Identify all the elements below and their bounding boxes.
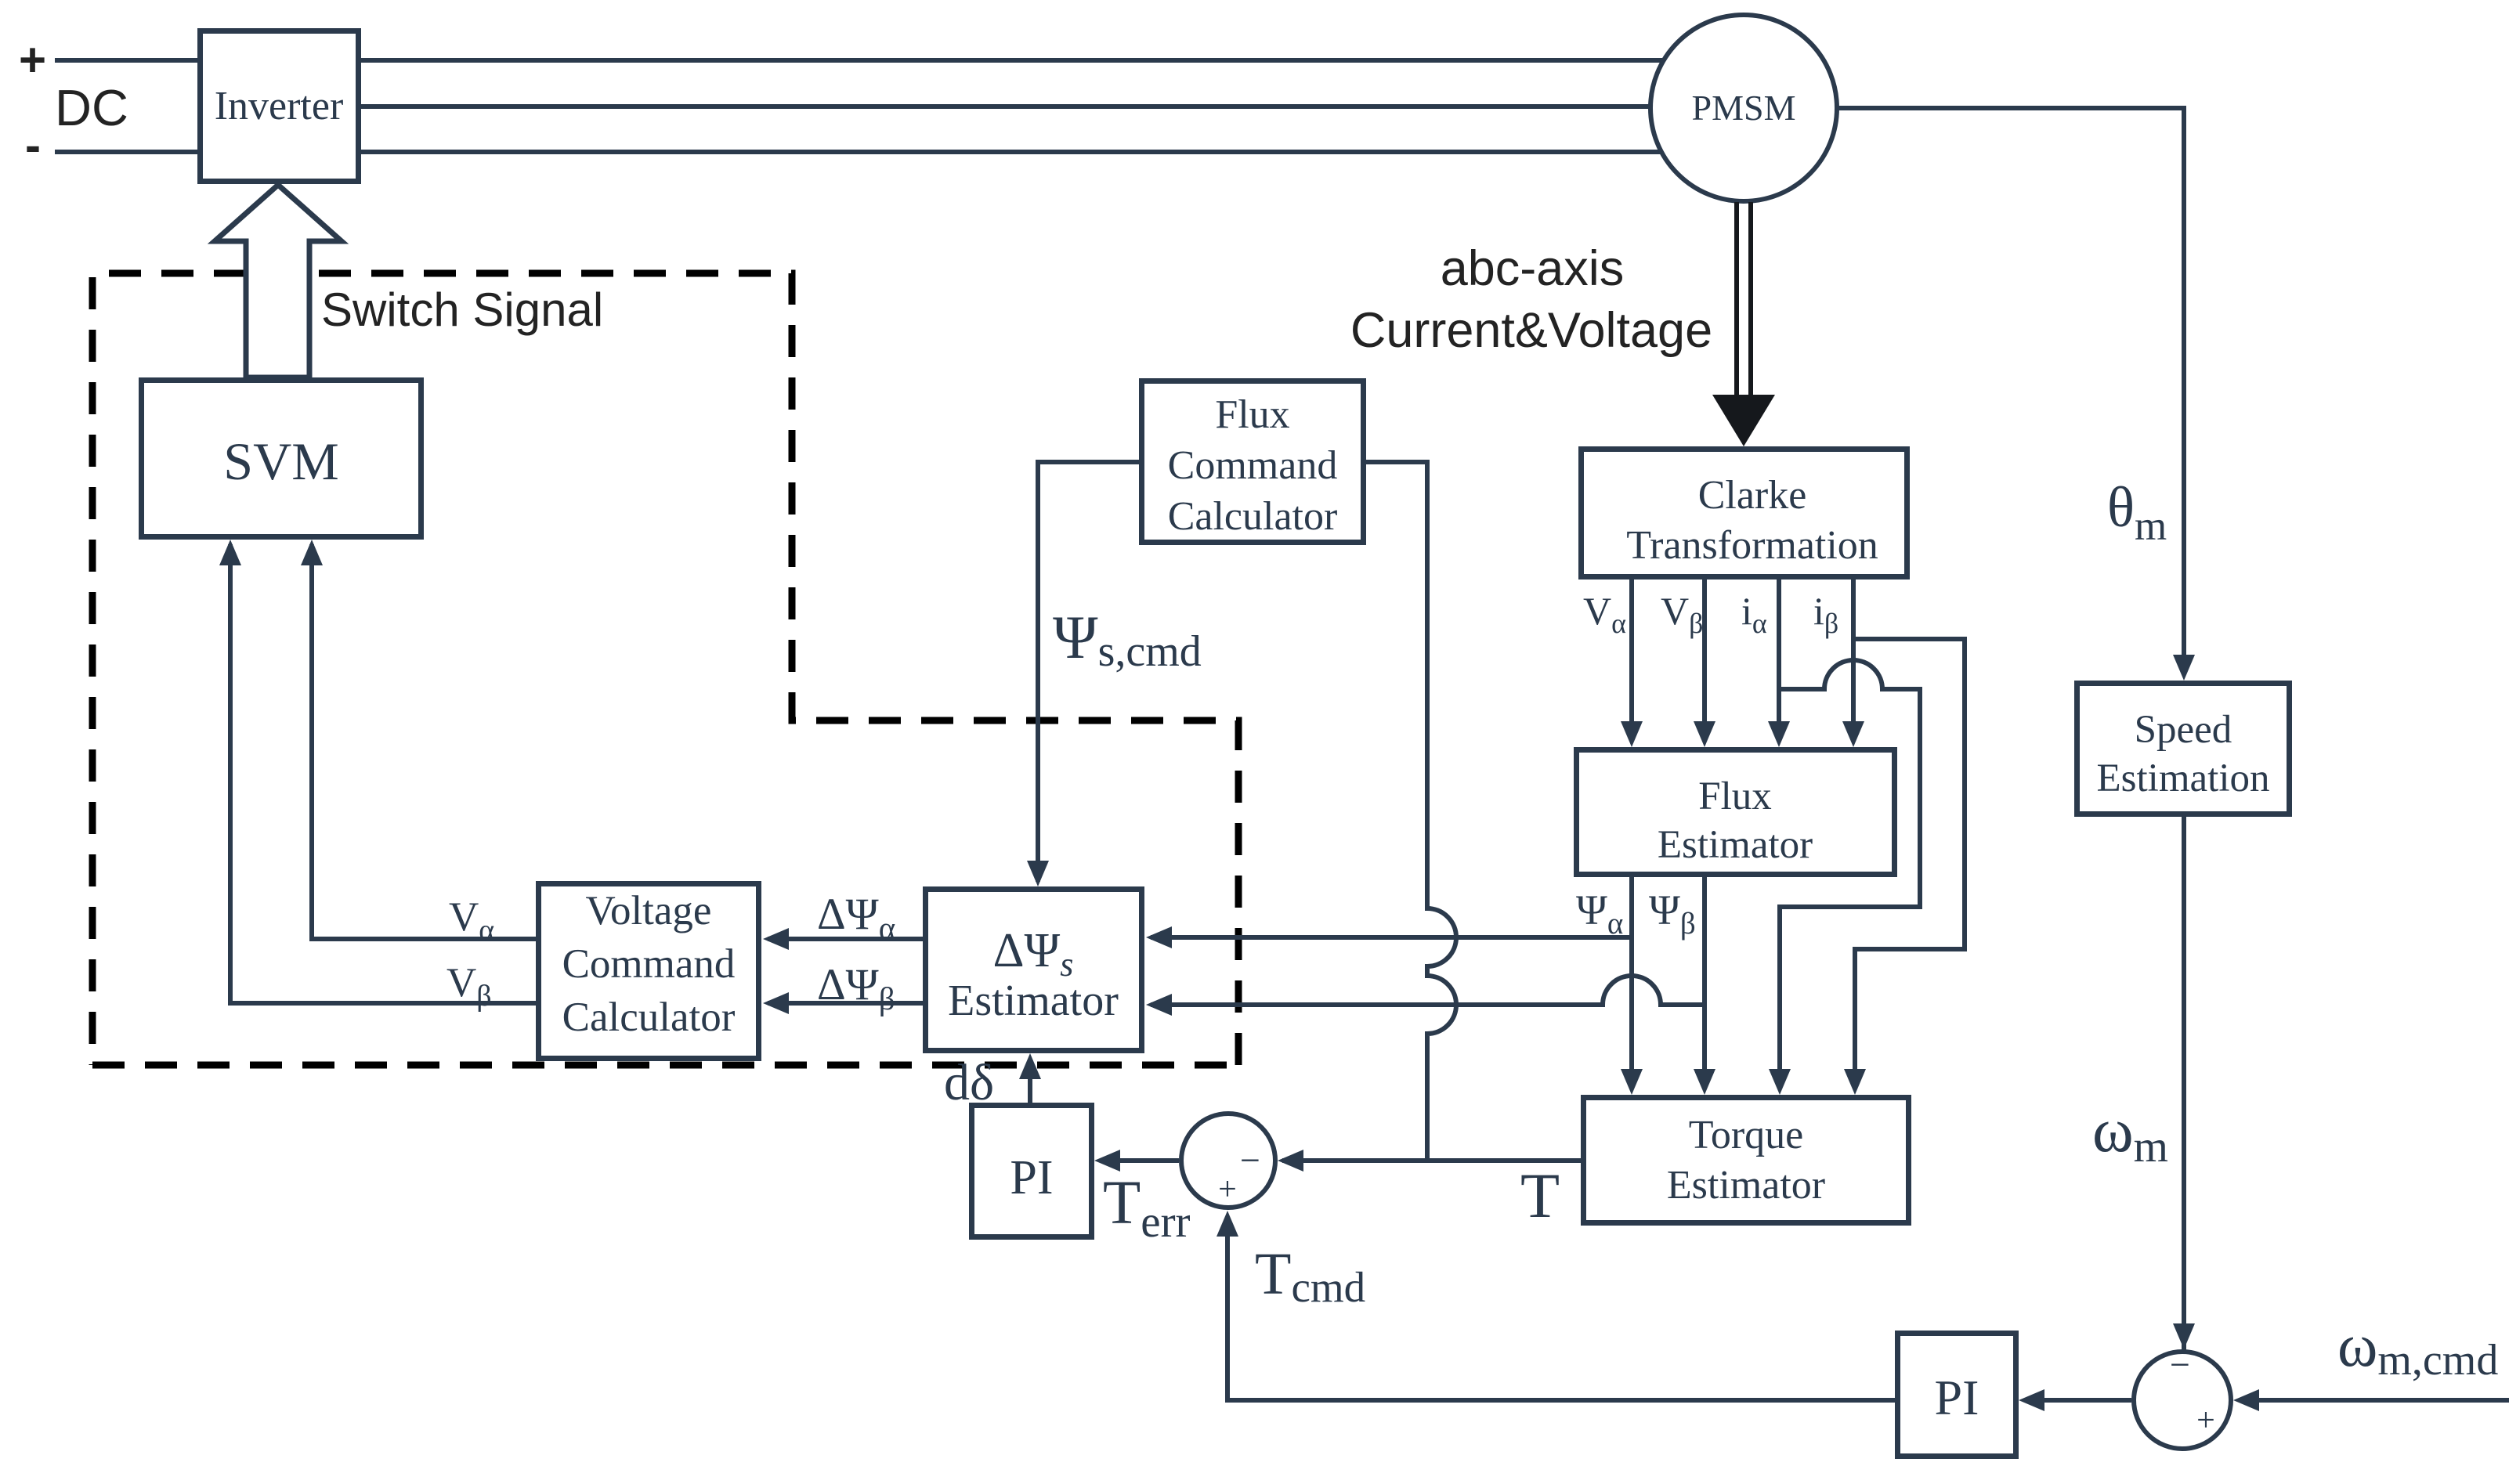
svg-text:Clarke: Clarke	[1698, 473, 1807, 518]
svg-text:Estimator: Estimator	[1658, 823, 1813, 867]
svg-text:Estimation: Estimation	[2097, 756, 2270, 800]
svg-text:Command: Command	[1168, 443, 1338, 488]
svg-text:+: +	[1218, 1172, 1237, 1208]
svg-text:Command: Command	[562, 941, 736, 987]
svg-text:Current&Voltage: Current&Voltage	[1350, 303, 1712, 358]
svg-text:abc-axis: abc-axis	[1441, 241, 1625, 296]
svg-text:+: +	[19, 34, 46, 86]
svg-text:PMSM: PMSM	[1692, 88, 1796, 128]
svg-text:Voltage: Voltage	[586, 888, 712, 933]
svg-text:−: −	[1240, 1140, 1260, 1180]
svg-text:Estimator: Estimator	[948, 977, 1119, 1025]
svg-text:PI: PI	[1935, 1370, 1979, 1425]
svg-text:dδ: dδ	[944, 1054, 994, 1111]
svg-text:T: T	[1520, 1160, 1560, 1231]
svg-text:Flux: Flux	[1698, 774, 1772, 818]
svg-text:Speed: Speed	[2135, 708, 2232, 752]
svg-text:DC: DC	[55, 79, 128, 136]
svg-text:PI: PI	[1010, 1151, 1053, 1204]
svg-text:SVM: SVM	[223, 431, 338, 491]
svg-text:Transformation: Transformation	[1626, 523, 1878, 568]
svg-text:−: −	[2170, 1345, 2190, 1385]
svg-text:Calculator: Calculator	[562, 995, 736, 1040]
svg-text:-: -	[25, 119, 41, 172]
svg-text:Estimator: Estimator	[1667, 1163, 1825, 1208]
svg-text:Calculator: Calculator	[1168, 494, 1338, 539]
svg-text:Torque: Torque	[1689, 1113, 1804, 1157]
svg-text:Switch Signal: Switch Signal	[321, 283, 603, 336]
svg-text:Inverter: Inverter	[215, 84, 344, 128]
svg-text:Flux: Flux	[1215, 392, 1289, 437]
svg-text:+: +	[2196, 1403, 2215, 1439]
